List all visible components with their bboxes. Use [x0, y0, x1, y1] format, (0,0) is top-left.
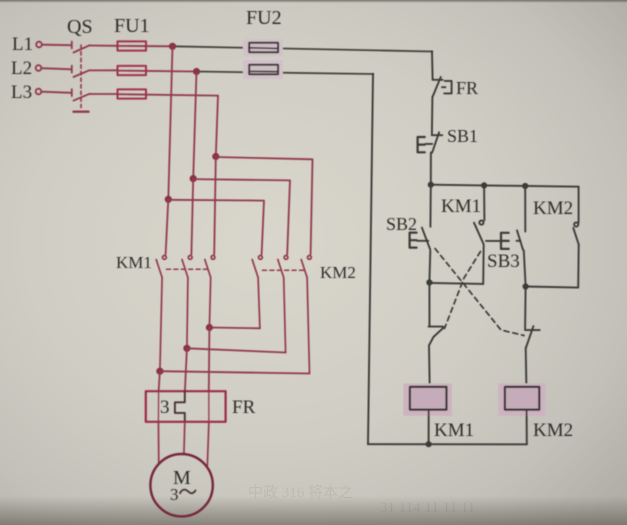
contactor KM1 aux contact (NO) top wire — [483, 185, 485, 220]
fuse FU2b through-wire — [249, 70, 278, 72]
switch QS pole 2 blade — [74, 70, 90, 77]
fuse FU2b body — [249, 65, 278, 74]
wire L3 to QS — [41, 92, 71, 93]
motor tilde mark — [180, 490, 196, 494]
wire motor lead V to FR — [185, 348, 187, 391]
wire coil KM1 to bottom rail — [428, 410, 430, 444]
svg-text:KM1: KM1 — [116, 253, 152, 272]
wire L1 branch to KM2 pole1 — [168, 200, 264, 255]
wire QS to FU1a — [90, 45, 118, 47]
wire L3 to KM1 pole3 — [214, 157, 216, 255]
wire to coil KM2 — [525, 348, 528, 388]
button SB2 actuator E — [410, 233, 417, 248]
contactor KM1 linkage (dashed) — [167, 268, 211, 270]
button SB3 actuator stem right — [517, 240, 521, 242]
junction J4 (L1 branch to KM2) — [165, 196, 172, 203]
button SB3 blade — [517, 230, 523, 249]
junction J5 (L2 branch to KM2) — [190, 175, 197, 182]
contactor KM2 main pole 3 — [301, 256, 311, 374]
wire L3 branch to KM2 pole3 — [216, 157, 313, 254]
svg-text:3: 3 — [160, 397, 170, 418]
contactor KM1 main pole 3 — [205, 256, 215, 328]
switch QS linkage (dashed) — [80, 45, 82, 108]
wire bottom rail — [368, 443, 527, 445]
svg-text:FR: FR — [456, 78, 478, 98]
svg-text:KM2: KM2 — [320, 263, 356, 282]
button SB1 actuator stem — [426, 143, 433, 145]
contactor KM1 aux blade — [474, 223, 484, 244]
thermal relay FR heater element — [175, 391, 185, 422]
button SB3 (NO start rev) top wire — [524, 186, 526, 232]
contactor KM1 aux bottom wire — [482, 245, 485, 284]
contactor KM2 aux bottom wire — [526, 246, 579, 288]
svg-text:QS: QS — [67, 16, 93, 38]
switch QS pole 1 blade — [74, 45, 90, 52]
button SB3 NC interlock blade — [429, 327, 444, 345]
coil KM1 highlight — [403, 384, 452, 416]
wire FR to motor (W) — [207, 422, 209, 467]
coil KM2 body — [505, 387, 539, 410]
svg-text:L1: L1 — [12, 34, 33, 55]
svg-text:KM1: KM1 — [441, 196, 481, 217]
wire FR pole1 pass-through — [157, 391, 159, 422]
switch QS pole 3 hinge — [71, 89, 73, 96]
button SB1 (NC stop) crossbar — [432, 134, 443, 136]
mechanical link SB3 (dashed) — [445, 252, 481, 329]
contactor KM1 main pole 2 — [182, 256, 192, 349]
wire node B rail — [429, 283, 483, 284]
button SB2 NC interlock crossbar — [525, 329, 540, 331]
svg-text:FU1: FU1 — [114, 15, 150, 37]
relay contact FR (NC) crossbar — [433, 79, 443, 81]
svg-text:FR: FR — [232, 397, 256, 418]
node L1 (terminal circle) — [36, 42, 42, 48]
switch QS pole 3 blade — [74, 94, 90, 101]
wire L2 riser — [193, 72, 196, 179]
junction J2 (L2 tap) — [193, 68, 200, 75]
junction node A1 — [428, 182, 434, 188]
coil KM2 highlight — [498, 384, 545, 416]
fuse FU2b highlight — [243, 60, 283, 79]
relay contact FR (NC) blade — [433, 77, 441, 97]
svg-text:L2: L2 — [11, 58, 32, 79]
svg-text:L3: L3 — [11, 82, 32, 103]
contactor KM2 main pole 2 — [278, 256, 288, 353]
button SB2 bottom wire — [428, 251, 431, 283]
button SB3 actuator stem left — [486, 240, 500, 242]
wire FU1b to node J2 — [118, 70, 197, 73]
junction J9 (motor lead U tap) — [156, 368, 163, 375]
motor M circle — [150, 454, 212, 516]
switch QS handle bar — [74, 110, 89, 112]
wire L2 branch to KM2 pole2 — [193, 179, 290, 254]
wire L3 riser — [216, 96, 218, 157]
wire L2 to QS — [41, 68, 71, 69]
button SB2 actuator stem — [417, 240, 428, 242]
wire top rail (node A) — [431, 185, 579, 187]
mechanical link SB2 (dashed) — [435, 249, 524, 336]
button SB2 (NO start fwd) top wire — [429, 185, 431, 227]
fuse FU1b body — [118, 66, 147, 75]
wire L2 feeder to control (through FU2b) — [197, 72, 374, 75]
wire control phase drop (corner from L1 feeder) — [431, 52, 434, 79]
svg-text:FU2: FU2 — [246, 7, 282, 29]
wire FU1a to node J1 — [118, 45, 173, 47]
wire coil KM2 to bottom rail — [526, 410, 528, 444]
contactor KM2 aux blade — [573, 228, 579, 245]
contactor KM2 aux contact circle — [574, 222, 578, 226]
relay contact FR hook symbol — [442, 81, 452, 94]
contactor KM2 linkage (dashed) — [263, 269, 307, 271]
contactor KM1 main pole 1 — [156, 256, 166, 372]
wire FR pole3 pass-through — [208, 391, 210, 422]
svg-text:3: 3 — [170, 485, 179, 504]
node L2 (terminal circle) — [36, 65, 42, 71]
junction bottom rail at KM1 coil — [426, 441, 432, 447]
wire motor lead W to FR — [208, 328, 211, 392]
junction node B — [426, 279, 432, 285]
wire FR to motor (V) — [183, 422, 186, 454]
coil KM1 body — [410, 387, 447, 410]
button SB3 NC interlock top wire — [428, 283, 430, 327]
contactor KM2 main pole 1 — [252, 256, 262, 329]
svg-text:31 114 11 11 11: 31 114 11 11 11 — [380, 500, 475, 516]
button SB3 NC interlock crossbar — [429, 326, 443, 328]
contactor KM2 aux contact (NO) top wire — [578, 187, 580, 223]
svg-text:KM2: KM2 — [533, 420, 573, 441]
svg-text:SB2: SB2 — [386, 214, 417, 234]
button SB2 NC interlock top wire — [524, 287, 527, 329]
wire left rail (L2 feeder drop) — [368, 74, 373, 444]
ghost print bleed-through (decorative) — [248, 484, 475, 516]
wire L2 to KM1 pole2 — [191, 179, 193, 255]
wire to coil KM1 — [428, 345, 431, 387]
junction J7 (motor lead W tap) — [206, 324, 213, 331]
junction node C — [523, 283, 529, 289]
node L3 (terminal circle) — [36, 89, 42, 95]
junction node A3 — [522, 183, 528, 189]
wire L1 feeder to control (through FU2a) — [173, 46, 433, 51]
button SB3 bottom wire — [524, 251, 526, 286]
wire crossover KM1p2 to KM2p2 — [187, 348, 286, 352]
svg-text:SB3: SB3 — [487, 251, 520, 272]
wire FR to motor (U) — [157, 422, 159, 465]
wire QS to FU1b — [90, 69, 118, 71]
thermal relay FR heater box — [146, 391, 226, 422]
fuse FU1a body — [118, 41, 147, 50]
wire crossover KM1p1 to KM2p3 — [160, 371, 310, 373]
fuse FU2a highlight — [243, 39, 283, 56]
wire L1 to KM1 pole1 — [166, 199, 169, 254]
junction J8 (motor lead V tap) — [183, 345, 190, 352]
wire FU1c to L3 riser — [118, 94, 219, 95]
switch QS pole 2 hinge — [71, 66, 73, 73]
wire L1 riser — [168, 46, 172, 199]
wire QS to FU1c — [90, 93, 118, 95]
button SB3 actuator E — [501, 233, 509, 249]
button SB1 actuator E — [418, 137, 425, 152]
junction node A2 — [481, 182, 487, 188]
wire crossover KM1p3 to KM2p1 — [209, 327, 260, 330]
wire motor lead U to FR — [159, 371, 160, 391]
button SB2 NC interlock blade — [526, 326, 533, 347]
switch QS pole 1 hinge — [71, 42, 73, 49]
wire FR to SB1 — [431, 97, 434, 134]
svg-text:KM1: KM1 — [434, 420, 474, 441]
fuse FU1c body — [118, 89, 147, 98]
button SB1 blade — [432, 132, 439, 152]
svg-text:SB1: SB1 — [447, 126, 478, 146]
fuse FU2a body — [249, 43, 278, 52]
button SB2 blade — [422, 228, 430, 250]
svg-text:KM2: KM2 — [533, 198, 573, 219]
junction J1 (L1 tap) — [169, 43, 176, 50]
contactor KM1 aux contact circle — [479, 221, 483, 225]
svg-text:中政 316 将本之: 中政 316 将本之 — [248, 484, 353, 501]
wire SB1 to node A — [430, 153, 432, 185]
junction J6 (L3 branch to KM2) — [212, 153, 219, 160]
wire L1 to QS — [42, 44, 72, 47]
fuse FU2a through-wire — [249, 47, 278, 50]
